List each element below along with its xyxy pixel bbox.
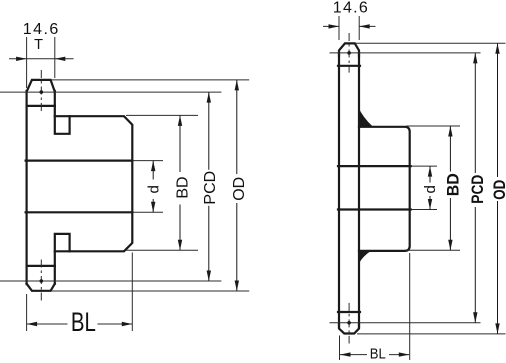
right bottom fillet <box>358 250 371 266</box>
right top root line <box>338 65 360 67</box>
right 14.6 dim line <box>323 25 376 27</box>
left T dim line <box>9 58 74 60</box>
svg-text:PCD: PCD <box>202 171 219 205</box>
arrows: d <box>151 161 155 172</box>
left dimension vertical lines with arrows <box>153 80 237 291</box>
left pitch line top <box>0 91 221 93</box>
svg-text:BD: BD <box>445 173 463 196</box>
svg-text:d: d <box>146 185 163 193</box>
svg-text:14.6: 14.6 <box>23 21 59 38</box>
left BD ext bottom <box>126 249 198 251</box>
arrows: right BD <box>448 126 452 137</box>
right bore ext bottom <box>411 209 437 211</box>
BD dim line <box>179 115 181 250</box>
left tooth top profile <box>27 80 55 92</box>
right tooth top (rounded) <box>339 43 359 56</box>
left T ext line left <box>26 37 28 88</box>
centerline top tooth <box>40 70 42 112</box>
PCD dim line <box>208 92 210 281</box>
centerline top tooth right <box>348 33 350 73</box>
right tooth bottom (rounded) <box>339 324 359 334</box>
right BL ext right <box>409 253 411 360</box>
OD dim line <box>236 80 238 291</box>
BD dim line right <box>449 126 451 250</box>
left plate left face <box>26 91 28 284</box>
left BL ext left <box>26 294 28 331</box>
left BL ext right <box>131 253 133 332</box>
left tooth centerlines (dash-dot) <box>40 70 42 302</box>
arrows: PCD <box>207 92 211 103</box>
OD dim line right <box>497 43 499 334</box>
left OD ext bottom <box>51 290 250 292</box>
right plate left face <box>338 53 340 327</box>
right BL ext left <box>339 336 341 361</box>
centerline bottom tooth right <box>348 303 350 344</box>
d dim line <box>152 161 154 213</box>
svg-text:BL: BL <box>71 307 96 337</box>
left bore bottom line <box>26 211 133 213</box>
svg-text:OD: OD <box>491 180 506 200</box>
right 14.6 ext right <box>358 16 360 40</box>
svg-text:d: d <box>422 185 439 193</box>
right top fillet <box>358 107 373 128</box>
svg-text:14.6: 14.6 <box>333 0 368 17</box>
right plate right face <box>358 53 360 327</box>
thin lines right <box>323 16 506 360</box>
right BD ext top <box>406 125 460 127</box>
right pitch line bottom <box>330 322 481 324</box>
right 14.6 ext left <box>338 16 340 40</box>
left top notch <box>55 106 70 134</box>
arrows: right PCD <box>473 53 477 64</box>
left tooth bottom profile <box>27 284 55 291</box>
right OD ext top <box>355 42 506 44</box>
arrows: BD <box>178 115 182 126</box>
centerline bottom tooth <box>40 260 42 303</box>
right bottom root line <box>338 311 360 313</box>
svg-text:OD: OD <box>231 177 248 201</box>
svg-text:BL: BL <box>370 346 386 363</box>
right pitch line top <box>330 52 481 54</box>
PCD dim line right <box>474 53 476 323</box>
right pitch dots <box>347 51 351 55</box>
left plate right face bottom <box>54 266 56 284</box>
arrows: right 14.6 <box>329 24 340 28</box>
left hub outline <box>55 116 133 251</box>
svg-text:BD: BD <box>174 176 191 198</box>
right bore ext top <box>411 165 437 167</box>
left bottom notch <box>55 234 70 266</box>
left OD ext top <box>51 79 250 81</box>
arrows: OD <box>235 80 239 91</box>
right bore top line <box>338 165 411 167</box>
thin lines (extension / center lines) left <box>0 37 249 331</box>
left pitch dots <box>40 90 44 94</box>
svg-text:PCD: PCD <box>469 175 487 204</box>
right tooth centerlines (dash-dot) <box>348 33 350 344</box>
right BD ext bottom <box>406 249 460 251</box>
left tooth bottom root line <box>27 265 55 267</box>
left bore ext bottom <box>132 211 163 213</box>
left T ext line right <box>54 37 56 78</box>
left plate right face top <box>54 91 56 106</box>
arrows: T dim <box>16 57 27 61</box>
right dimension vertical lines <box>430 43 498 334</box>
left tooth top root line <box>27 105 55 107</box>
right bore bottom line <box>338 208 411 210</box>
right hub outline <box>359 127 410 251</box>
left BD ext top <box>126 114 198 116</box>
right BL dim line <box>340 354 409 356</box>
left bore ext top <box>132 160 163 162</box>
left pitch line bottom <box>0 280 221 282</box>
d dim line right <box>429 166 431 209</box>
arrows: right OD <box>495 43 499 54</box>
arrows: right BL <box>340 352 351 356</box>
left bore top line <box>26 160 133 162</box>
right OD ext bottom <box>357 333 506 335</box>
arrows: BL left <box>27 322 37 326</box>
left BL dim line <box>27 323 133 325</box>
svg-text:T: T <box>34 37 43 53</box>
arrows: right d <box>428 166 432 177</box>
